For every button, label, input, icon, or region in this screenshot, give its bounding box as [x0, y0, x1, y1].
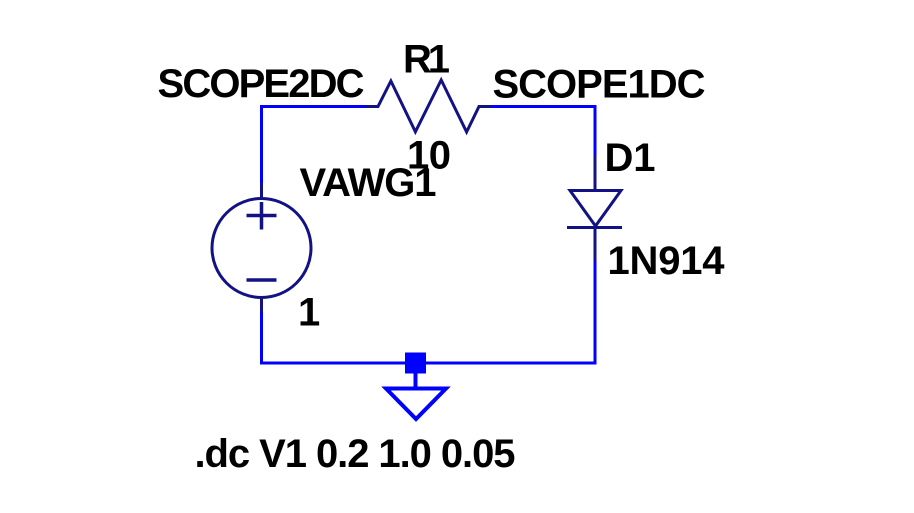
- diode D1 triangle: [570, 191, 621, 227]
- svg-text:1: 1: [298, 291, 320, 335]
- wire top-left: from resistor left lead to left corner and down to source: [262, 107, 367, 184]
- ground stem: [414, 373, 418, 389]
- diode D1 lead bottom: [594, 228, 597, 261]
- svg-text:VAWG1: VAWG1: [300, 161, 437, 205]
- wire bottom-right: from ground node to diode bottom: [416, 259, 595, 363]
- diode D1 cathode bar: [567, 226, 622, 229]
- svg-text:SCOPE2DC: SCOPE2DC: [158, 62, 365, 106]
- svg-text:R1: R1: [403, 38, 450, 82]
- node junction square: [405, 353, 426, 374]
- svg-text:SCOPE1DC: SCOPE1DC: [493, 63, 706, 107]
- wire left-bottom: from source bottom to bottom-left corner: [262, 311, 417, 363]
- svg-text:.dc V1 0.2 1.0 0.05: .dc V1 0.2 1.0 0.05: [195, 432, 516, 476]
- voltage source VAWG1 circle: [212, 199, 311, 298]
- svg-text:D1: D1: [605, 136, 656, 180]
- voltage source VAWG1 lead bottom: [260, 297, 263, 312]
- voltage source VAWG1 lead top: [260, 183, 263, 199]
- wire top-right: from resistor right lead to right corner and down to diode: [492, 107, 595, 158]
- diode D1 lead top: [594, 156, 597, 190]
- voltage source plus sign: [247, 202, 277, 230]
- resistor R1: [366, 80, 492, 132]
- ground triangle: [386, 389, 446, 420]
- voltage source minus sign: [247, 278, 277, 282]
- svg-text:1N914: 1N914: [608, 239, 726, 283]
